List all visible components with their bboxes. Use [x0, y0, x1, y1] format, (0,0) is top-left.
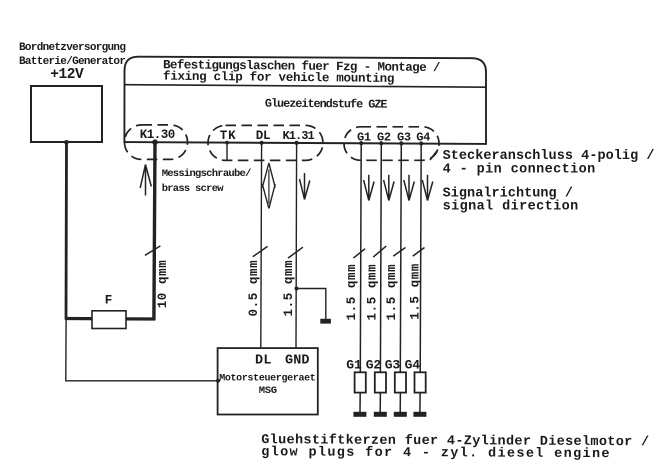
svg-text:DL: DL	[255, 354, 272, 369]
connector bubble K1.30	[125, 125, 188, 159]
glow plug G1 tail wire	[359, 393, 361, 412]
signal direction label	[443, 187, 579, 215]
glow plug G4 tail wire	[419, 393, 421, 412]
svg-text:DL: DL	[256, 129, 271, 143]
wire gauge slash 1.5qmm (K1.31)	[288, 247, 303, 258]
svg-text:F: F	[105, 293, 113, 307]
connector bubble G1-G4	[344, 127, 439, 161]
4-pin connection label	[443, 149, 655, 177]
ground bar G2	[374, 412, 387, 417]
svg-text:G3: G3	[397, 131, 411, 145]
junction dot G1	[359, 141, 363, 145]
battery box	[31, 86, 102, 142]
svg-text:glow plugs for 4 - zyl. diesel: glow plugs for 4 - zyl. diesel engine	[261, 445, 611, 462]
wire gauge slash 10qmm	[145, 246, 161, 256]
signal direction down arrows under G1-G4	[364, 175, 433, 201]
junction dot TK	[225, 141, 229, 145]
svg-text:0.5 qmm: 0.5 qmm	[247, 260, 261, 317]
svg-text:GND: GND	[285, 354, 310, 369]
bidirectional signal arrow at DL	[262, 163, 275, 209]
K1.31 wire down to MSG (GND)	[295, 143, 298, 348]
svg-text:G3: G3	[385, 357, 401, 372]
svg-text:brass screw: brass screw	[162, 183, 225, 195]
TK stub wire	[226, 143, 228, 160]
svg-text:fixing clip for vehicle mounti: fixing clip for vehicle mounting	[163, 70, 394, 86]
G4 wire	[420, 144, 421, 373]
thick wire: horizontal to fuse and K1.30 wire	[65, 317, 155, 321]
separator line under mounting-clip section	[125, 85, 487, 88]
brass screw label	[162, 168, 251, 195]
MSG engine control unit box	[218, 348, 318, 414]
glow plug G1 body	[355, 372, 366, 392]
chassis ground bar	[320, 319, 331, 324]
junction dot G2	[379, 141, 383, 145]
thick wire: battery down	[65, 142, 68, 319]
svg-text:G1: G1	[346, 357, 362, 372]
svg-text:K1.30: K1.30	[140, 128, 175, 142]
brass screw up arrow	[140, 165, 151, 196]
glow plug G4 body	[415, 372, 426, 392]
glow plugs caption	[261, 433, 649, 462]
glow plug G3 tail wire	[399, 393, 401, 412]
ground bar G1	[353, 412, 366, 417]
DL wire down to MSG	[260, 143, 263, 348]
battery/generator supply label	[19, 42, 125, 83]
junction dot G3	[399, 141, 403, 145]
glow plug G2 body	[375, 372, 386, 392]
svg-text:1.5 qmm: 1.5 qmm	[282, 260, 296, 317]
wire gauge slash G4	[413, 248, 425, 257]
thin wire: fuse node down to MSG	[66, 320, 218, 381]
svg-text:Gluezeitendstufe GZE: Gluezeitendstufe GZE	[265, 97, 388, 112]
svg-text:G1: G1	[357, 131, 371, 145]
G2 wire	[379, 143, 382, 372]
junction dot at MSG box edge	[216, 379, 220, 383]
svg-text:Motorsteuergeraet: Motorsteuergeraet	[219, 374, 316, 385]
glow plug G3 body	[395, 372, 406, 392]
ground bar G3	[394, 412, 407, 417]
svg-text:Messingschraube/: Messingschraube/	[162, 168, 251, 180]
wire gauge slash G1	[353, 249, 365, 258]
svg-text:1.5 qmm: 1.5 qmm	[385, 264, 399, 321]
junction dot G4	[419, 141, 423, 145]
svg-text:1.5 qmm: 1.5 qmm	[409, 263, 423, 320]
callout slash to 4-pin connector label	[430, 150, 438, 161]
connector bubble TK DL K1.31	[208, 125, 323, 160]
svg-text:K1.31: K1.31	[283, 129, 315, 143]
junction dot DL	[260, 141, 264, 145]
svg-text:10 qmm: 10 qmm	[156, 260, 170, 309]
G3 wire	[400, 143, 401, 372]
down arrow at K1.31	[300, 173, 310, 200]
wire gauge slash G2	[373, 246, 386, 257]
G1 wire	[359, 143, 362, 372]
svg-text:G2: G2	[366, 357, 382, 372]
wire gauge slash G3	[393, 248, 405, 257]
svg-text:Bordnetzversorgung: Bordnetzversorgung	[19, 42, 125, 54]
svg-text:G4: G4	[416, 131, 430, 145]
svg-text:1.5 qmm: 1.5 qmm	[366, 264, 380, 321]
svg-text:+12V: +12V	[50, 67, 84, 83]
fuse F	[92, 311, 126, 329]
mounting clip label	[163, 58, 440, 86]
glow plug G2 tail wire	[379, 393, 381, 412]
svg-text:signal direction: signal direction	[443, 199, 579, 214]
junction dot at GND branch	[295, 287, 299, 291]
junction dot at K1.30 pin	[152, 139, 158, 145]
ground bar G4	[413, 412, 426, 417]
wire gauge slash 0.5qmm	[253, 246, 268, 256]
GZE unit outer box	[124, 57, 486, 144]
GND branch wire to chassis ground	[297, 289, 326, 320]
svg-text:MSG: MSG	[259, 385, 277, 397]
svg-text:G2: G2	[377, 131, 391, 145]
svg-text:G4: G4	[405, 357, 421, 372]
thick wire: K1.30 down	[154, 142, 155, 320]
svg-text:1.5 qmm: 1.5 qmm	[345, 264, 359, 321]
junction dot K1.31	[295, 141, 299, 145]
junction dot at battery box bottom	[64, 140, 69, 145]
svg-text:4 - pin connection: 4 - pin connection	[443, 162, 596, 177]
